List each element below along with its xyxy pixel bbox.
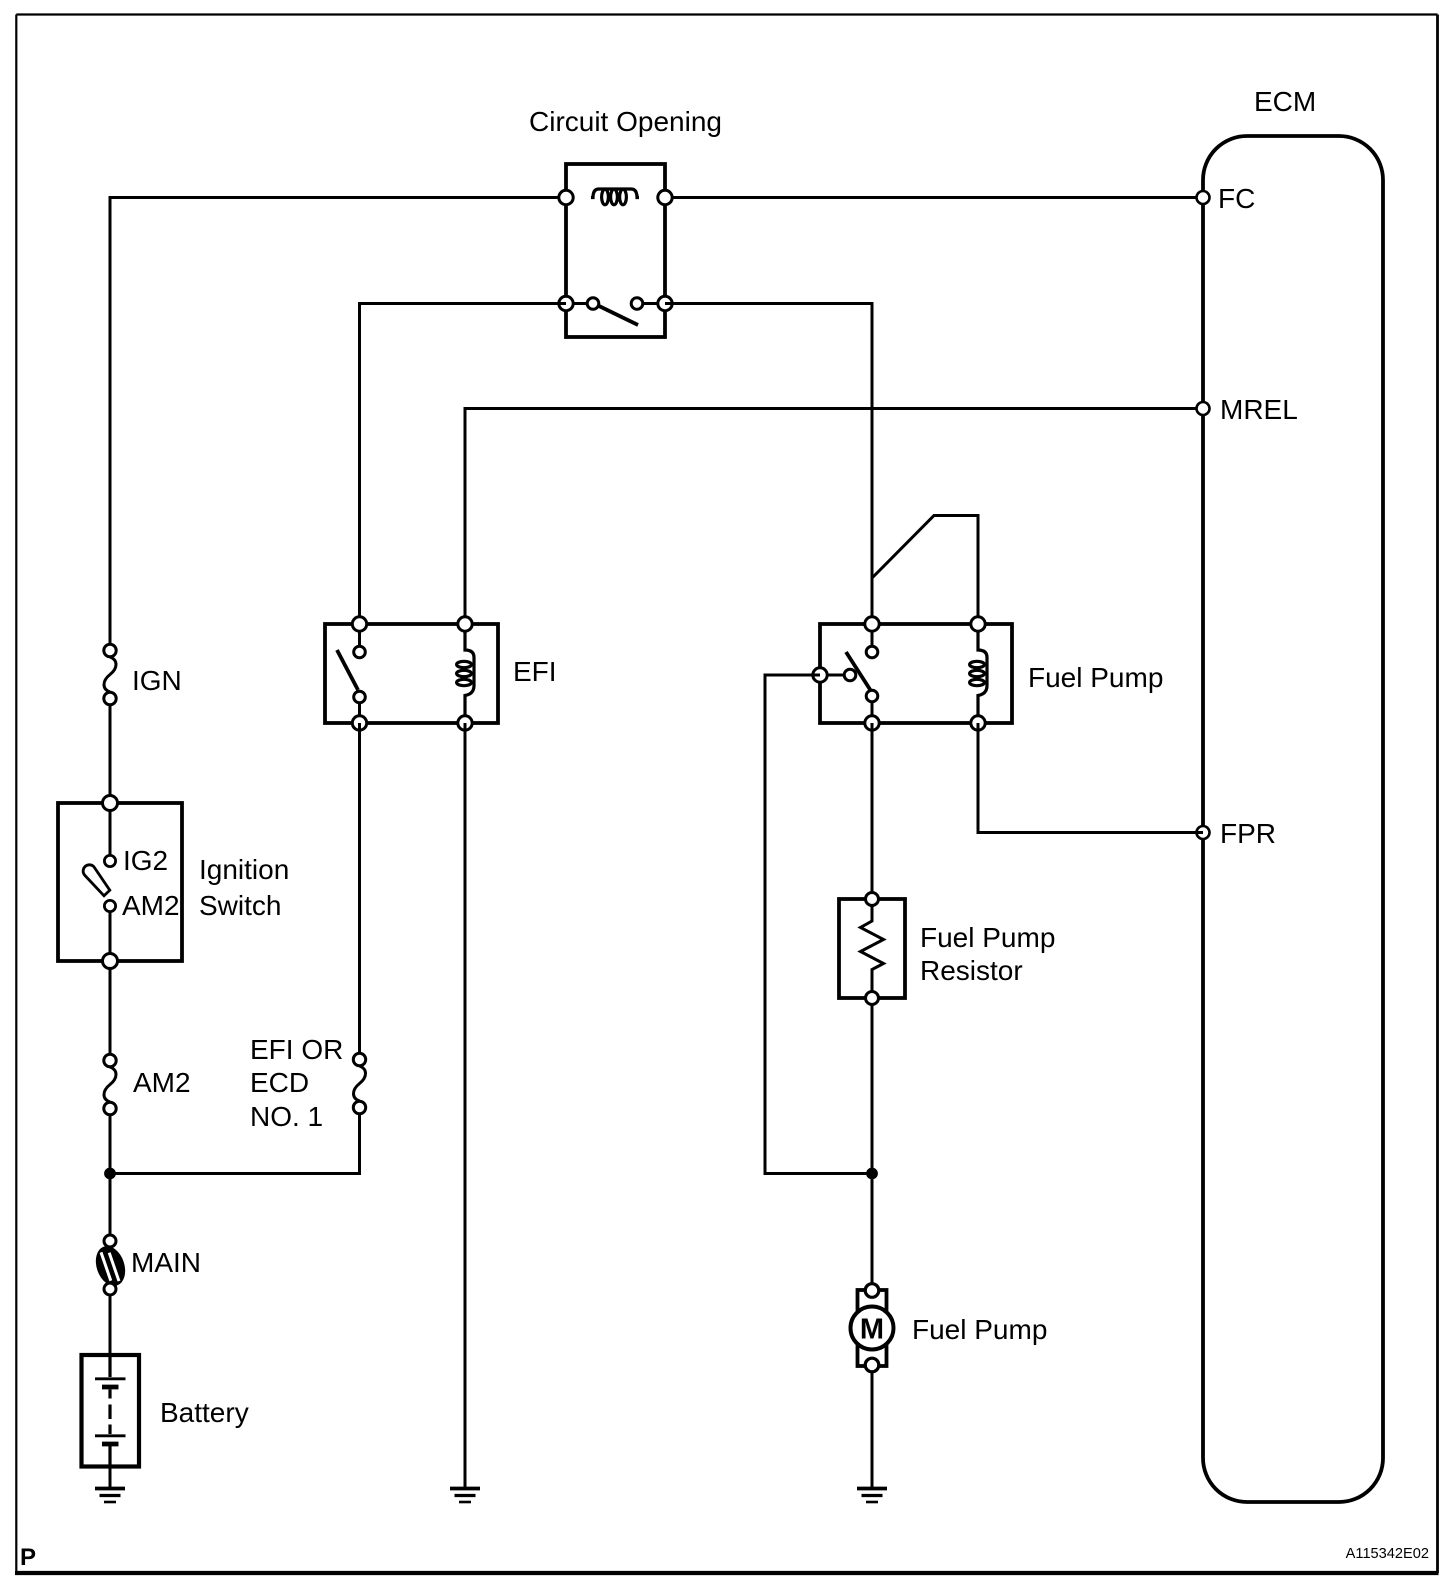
terminal: resistor top <box>866 893 879 906</box>
svg-text:Fuel Pump: Fuel Pump <box>1028 662 1163 693</box>
svg-text:Switch: Switch <box>199 890 281 921</box>
terminal MREL on ECM <box>1197 402 1210 415</box>
terminal: circuit opening relay switch right <box>658 296 672 310</box>
ground (fuel pump motor) <box>857 1489 887 1503</box>
wire MREL: from ECM MREL terminal to EFI relay coil <box>465 409 1203 625</box>
terminal: EFI relay coil top <box>458 617 472 631</box>
terminal: resistor bottom <box>866 992 879 1005</box>
wire: AM2 fuse down through junction to MAIN link <box>109 1114 112 1236</box>
wire: EFI relay switch bottom down to EFI-ECD fuse <box>358 723 361 1055</box>
svg-text:Circuit Opening: Circuit Opening <box>529 106 722 137</box>
fuse IGN <box>104 644 116 704</box>
wire FC: horizontal from left column to circuit opening relay coil <box>110 196 566 199</box>
svg-text:IGN: IGN <box>132 665 182 696</box>
contact AM2 <box>104 900 115 911</box>
fuse AM2 <box>104 1054 116 1114</box>
wire FPR: fuel pump relay coil bottom to ECM FPR terminal <box>978 723 1203 833</box>
relay box EFI <box>325 624 498 723</box>
wire: from circuit opening switch left to EFI relay column <box>360 304 567 625</box>
coil of circuit opening relay (horizontal inductor) <box>591 189 639 205</box>
terminal: EFI relay coil bottom <box>458 716 472 730</box>
ECM box <box>1203 136 1383 1502</box>
terminal: circuit opening relay coil right <box>658 190 672 204</box>
wire: resistor to fuel pump motor (through junction) <box>871 1004 874 1285</box>
svg-text:M: M <box>860 1314 884 1346</box>
svg-text:MAIN: MAIN <box>131 1247 201 1278</box>
wire: fuel pump relay switch bottom to resistor <box>871 723 874 895</box>
svg-text:Battery: Battery <box>160 1397 249 1428</box>
node: junction bypass / pump feed <box>867 1168 878 1179</box>
wire: inside ignition switch from AM2 contact to bottom terminal <box>109 911 112 957</box>
terminal: fuel pump relay switch top <box>865 617 879 631</box>
svg-text:AM2: AM2 <box>122 890 180 921</box>
terminal: EFI relay switch top <box>352 617 366 631</box>
terminal: fuel pump relay switch bottom <box>865 716 879 730</box>
svg-text:Resistor: Resistor <box>920 955 1023 986</box>
ignition switch box <box>58 803 182 961</box>
wire FC: horizontal from circuit opening relay coil to ECM FC terminal <box>665 196 1203 199</box>
terminal: fuel pump relay coil top <box>971 617 985 631</box>
switch of fuel pump relay <box>825 628 878 719</box>
terminal: ignition switch bottom <box>103 954 118 969</box>
resistor zigzag <box>861 905 884 992</box>
battery <box>82 1355 140 1467</box>
switch of circuit opening relay <box>570 298 661 325</box>
terminal: circuit opening relay switch left <box>559 296 573 310</box>
wire: ignition switch to AM2 fuse <box>109 968 112 1056</box>
terminal: circuit opening relay coil left <box>559 190 573 204</box>
svg-text:Ignition: Ignition <box>199 854 289 885</box>
wire: battery to ground <box>109 1466 112 1488</box>
terminal: fuel pump relay switch left <box>813 668 827 682</box>
wire: left battery feed vertical x=110 from FC wire down to IGN fuse <box>109 196 112 646</box>
switch of EFI relay <box>337 628 365 719</box>
wire: EFI relay coil down to ground <box>464 723 467 1488</box>
terminal FPR on ECM <box>1197 826 1210 839</box>
fuel pump motor <box>851 1284 894 1372</box>
wire: from circuit opening switch right to fuel pump relay column <box>665 304 872 625</box>
svg-text:A115342E02: A115342E02 <box>1346 1546 1429 1562</box>
svg-text:ECD: ECD <box>250 1067 309 1098</box>
svg-text:NO. 1: NO. 1 <box>250 1101 323 1132</box>
svg-text:ECM: ECM <box>1254 86 1316 117</box>
svg-text:MREL: MREL <box>1220 394 1298 425</box>
svg-text:IG2: IG2 <box>123 845 168 876</box>
svg-text:EFI OR: EFI OR <box>250 1034 343 1065</box>
wire: horizontal branch from junction to EFI-ECD fuse column <box>110 1113 360 1174</box>
fusible link MAIN <box>91 1235 130 1295</box>
ground (EFI relay coil) <box>450 1489 480 1503</box>
svg-text:Fuel Pump: Fuel Pump <box>920 922 1055 953</box>
svg-text:FPR: FPR <box>1220 818 1276 849</box>
wire: IGN fuse to ignition switch <box>109 704 112 799</box>
svg-text:EFI: EFI <box>513 656 557 687</box>
wire: motor to ground <box>871 1371 874 1488</box>
node: junction battery feed / EFI fuse branch <box>105 1168 116 1179</box>
wire: fuel pump relay left terminal to bypass column <box>765 675 872 1174</box>
svg-text:FC: FC <box>1218 183 1255 214</box>
contact IG2 <box>104 855 115 866</box>
fuse EFI OR ECD NO. 1 <box>353 1053 365 1113</box>
svg-text:AM2: AM2 <box>133 1067 191 1098</box>
fuel pump resistor box <box>839 899 905 998</box>
terminal: ignition switch top <box>103 796 118 811</box>
coil of fuel pump relay (vertical inductor) <box>970 631 987 716</box>
terminal: fuel pump relay coil bottom <box>971 716 985 730</box>
coil of EFI relay (vertical inductor) <box>457 631 474 716</box>
relay box Circuit Opening <box>566 164 665 337</box>
ground (battery) <box>95 1489 125 1503</box>
svg-text:Fuel Pump: Fuel Pump <box>912 1314 1047 1345</box>
terminal FC on ECM <box>1197 191 1210 204</box>
svg-text:P: P <box>20 1544 36 1571</box>
wire: inside ignition switch from top terminal to IG2 contact <box>109 810 112 855</box>
wire: MAIN link to battery <box>109 1295 112 1355</box>
wire: diagonal branch to fuel pump relay coil <box>872 516 978 625</box>
relay box Fuel Pump <box>820 624 1012 723</box>
lever of ignition switch <box>83 865 110 896</box>
terminal: EFI relay switch bottom <box>352 716 366 730</box>
